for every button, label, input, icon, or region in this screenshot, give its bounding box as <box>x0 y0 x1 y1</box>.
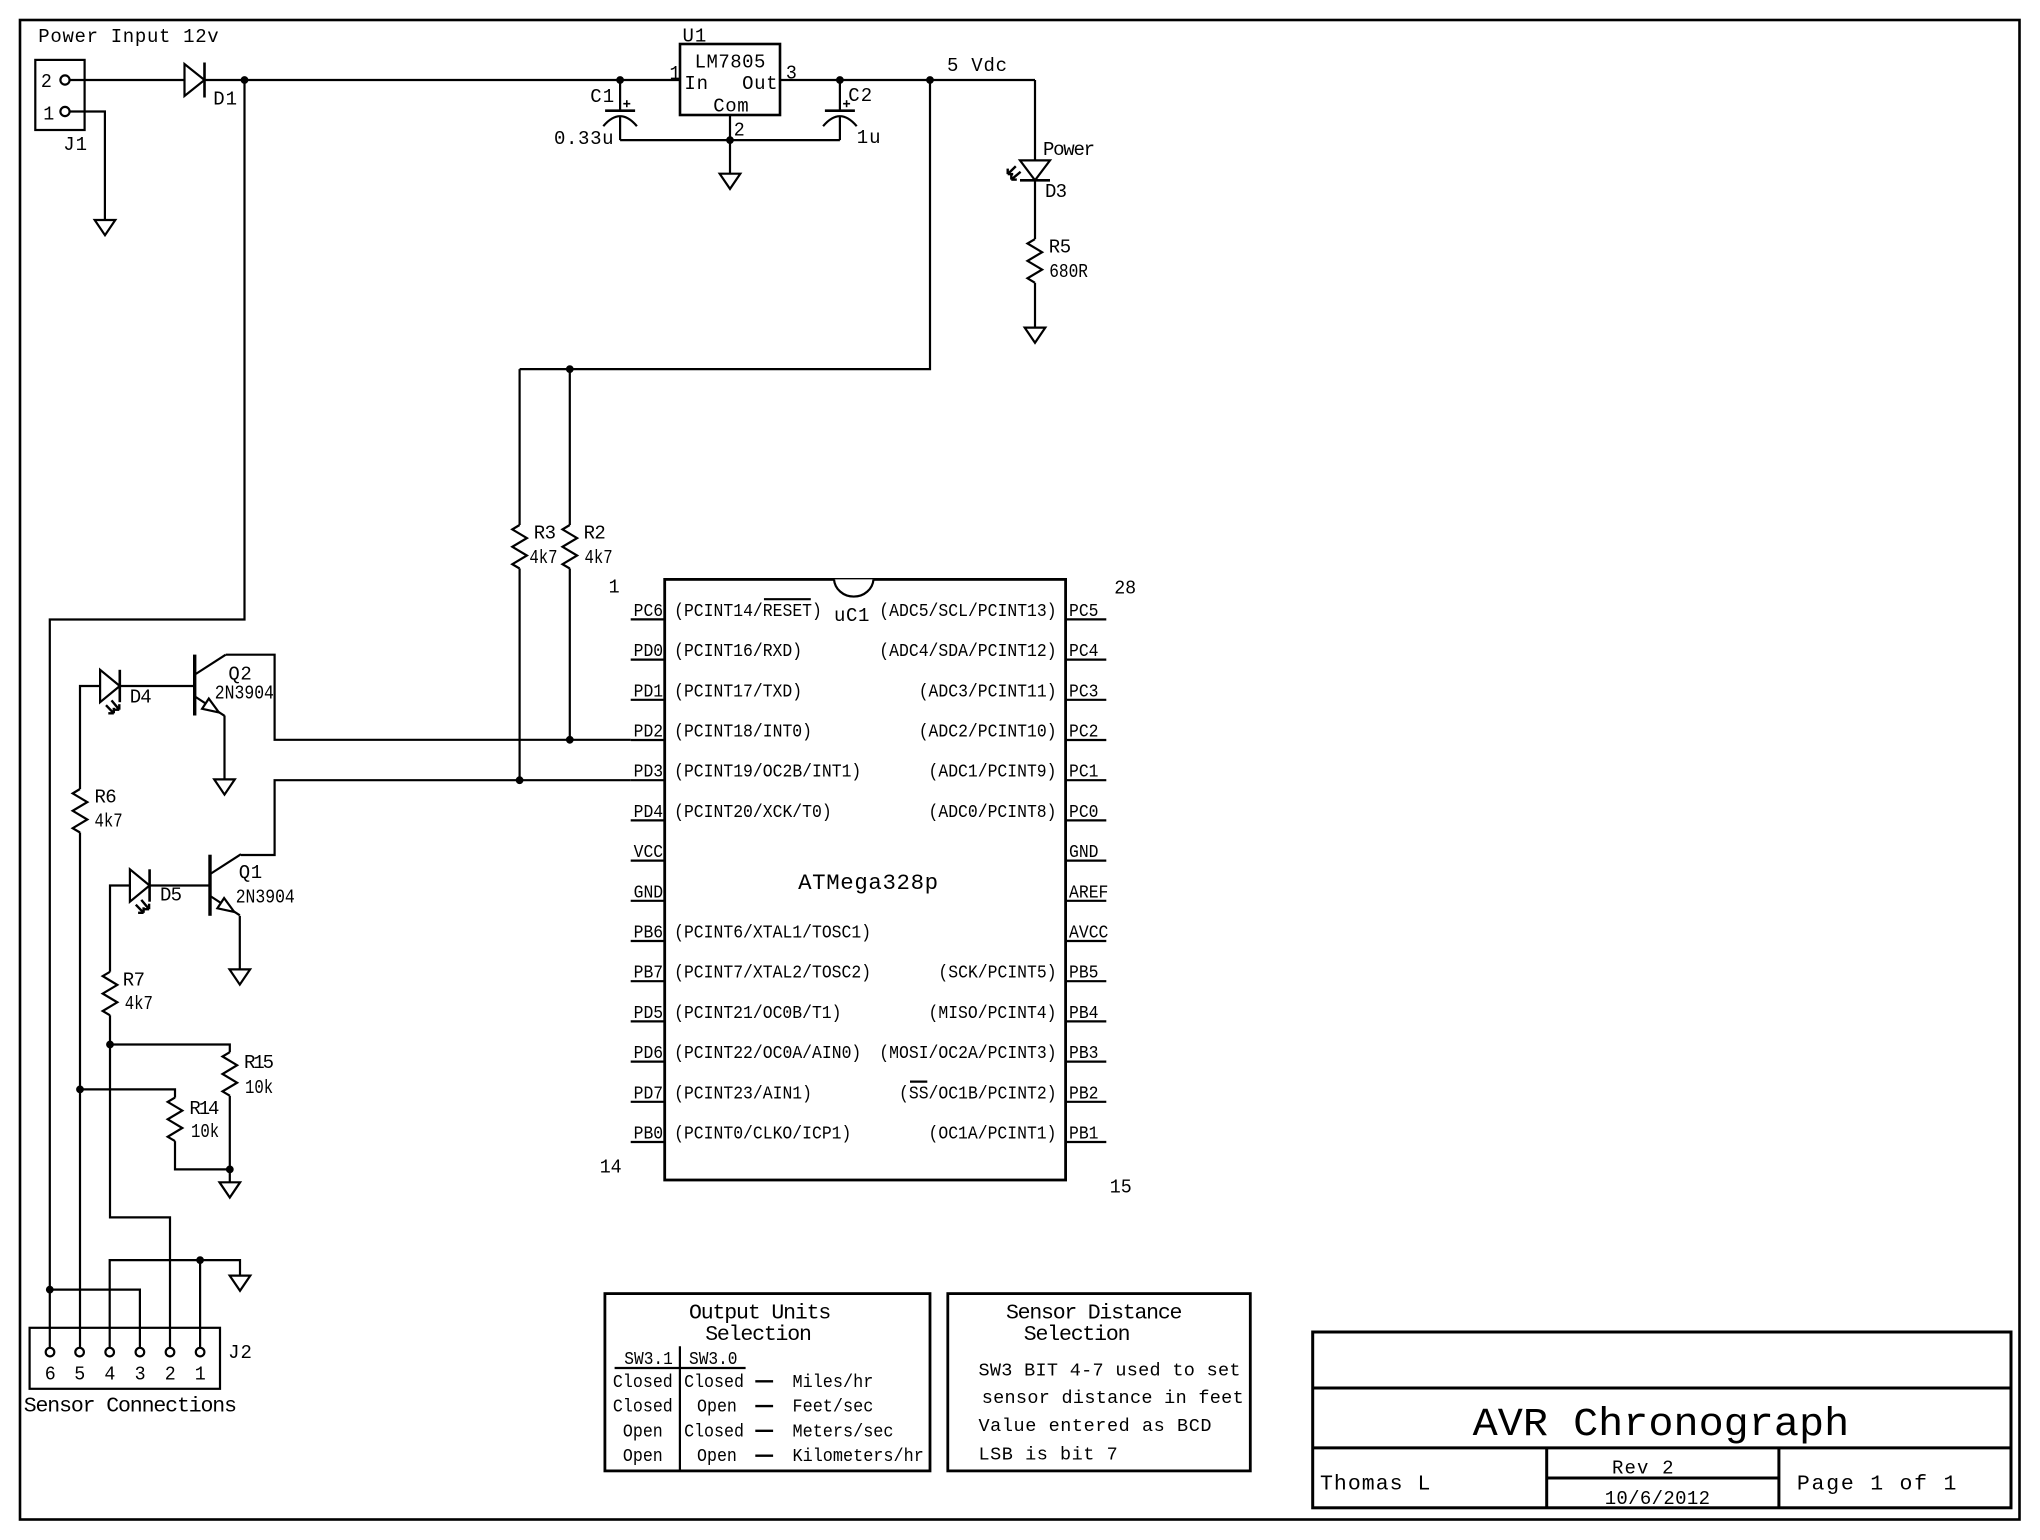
svg-text:PB3: PB3 <box>1069 1043 1099 1064</box>
junction R3-PD3 <box>516 777 523 784</box>
svg-text:uC1: uC1 <box>834 605 869 627</box>
resistor R5 <box>1028 239 1043 283</box>
svg-text:SW3.1: SW3.1 <box>624 1349 673 1370</box>
wire 5V down to R2 R3 feed <box>520 80 930 369</box>
svg-text:Closed: Closed <box>613 1372 673 1393</box>
svg-text:5: 5 <box>74 1363 85 1385</box>
connector J1 <box>35 60 84 130</box>
wire Q2 collector to PD2 <box>226 655 631 740</box>
pin PD3 stub <box>631 779 665 781</box>
LED D3 <box>1020 160 1050 180</box>
junction 5V node <box>927 77 934 84</box>
svg-text:(ADC1/PCINT9): (ADC1/PCINT9) <box>929 762 1057 783</box>
wire junction to J2 pin3 <box>50 1290 140 1348</box>
svg-text:Open: Open <box>623 1421 663 1442</box>
svg-text:PB0: PB0 <box>634 1124 664 1145</box>
svg-text:3: 3 <box>135 1363 146 1385</box>
ground below Q2 <box>214 779 235 794</box>
svg-text:PD5: PD5 <box>634 1003 664 1024</box>
wire D1 to C1 to U1 (12V rail) <box>205 79 680 81</box>
svg-text:PB2: PB2 <box>1069 1083 1099 1104</box>
svg-text:(PCINT7/XTAL2/TOSC2): (PCINT7/XTAL2/TOSC2) <box>674 963 871 984</box>
svg-text:PC3: PC3 <box>1069 681 1099 702</box>
transistor Q1 <box>208 855 211 916</box>
svg-text:PD4: PD4 <box>634 802 664 823</box>
svg-text:AVR Chronograph: AVR Chronograph <box>1473 1402 1850 1448</box>
pin PD1 stub <box>631 699 665 701</box>
junction R2-PD2 <box>566 736 573 743</box>
diode D1 <box>185 64 205 96</box>
svg-text:Selection: Selection <box>705 1323 812 1347</box>
svg-text:AVCC: AVCC <box>1069 923 1108 944</box>
svg-text:R3: R3 <box>534 523 556 545</box>
wire U1 out to C2 to 5V node <box>780 79 1035 81</box>
svg-text:D4: D4 <box>130 687 152 709</box>
ground below J1 <box>95 220 116 235</box>
svg-text:PD1: PD1 <box>634 681 664 702</box>
svg-text:VCC: VCC <box>634 842 664 863</box>
ground below R15 <box>220 1182 241 1197</box>
svg-text:Open: Open <box>697 1397 737 1418</box>
junction U1 ground <box>727 137 734 144</box>
junction at C1 tap <box>617 77 624 84</box>
wire R7 down to J2 pin2 route <box>110 1015 170 1348</box>
svg-text:2: 2 <box>165 1363 176 1385</box>
svg-text:Thomas L: Thomas L <box>1320 1473 1430 1497</box>
svg-text:PB6: PB6 <box>634 923 664 944</box>
table Output Units Selection box <box>605 1294 930 1471</box>
wire J1 pin1 to ground <box>70 112 105 221</box>
svg-text:Page 1 of 1: Page 1 of 1 <box>1797 1473 1957 1497</box>
pin PD6 stub <box>631 1060 665 1062</box>
wire D3 to R5 <box>1034 180 1036 239</box>
LED D5 <box>130 869 150 901</box>
svg-text:Feet/sec: Feet/sec <box>793 1397 874 1418</box>
svg-text:(MOSI/OC2A/PCINT3): (MOSI/OC2A/PCINT3) <box>879 1043 1056 1064</box>
svg-text:10k: 10k <box>245 1077 273 1099</box>
svg-text:PC5: PC5 <box>1069 601 1099 622</box>
svg-text:(PCINT0/CLKO/ICP1): (PCINT0/CLKO/ICP1) <box>674 1124 851 1145</box>
svg-text:(PCINT20/XCK/T0): (PCINT20/XCK/T0) <box>674 802 832 823</box>
svg-text:PD7: PD7 <box>634 1083 664 1104</box>
junction sensor 12V to J2 pin3 <box>46 1286 53 1293</box>
svg-text:5 Vdc: 5 Vdc <box>947 55 1007 77</box>
svg-text:(ADC5/SCL/PCINT13): (ADC5/SCL/PCINT13) <box>879 601 1056 622</box>
wire D5 anode to R7 chain <box>110 886 130 972</box>
wire D4 anode to R6 chain <box>80 686 100 789</box>
wire R2 to PD2 net <box>569 569 571 740</box>
svg-text:R7: R7 <box>123 970 145 992</box>
wire to R2 <box>569 369 571 525</box>
regulator U1 LM7805 box <box>680 44 780 115</box>
svg-text:(PCINT6/XTAL1/TOSC1): (PCINT6/XTAL1/TOSC1) <box>674 923 871 944</box>
svg-text:14: 14 <box>600 1157 622 1179</box>
svg-text:2: 2 <box>734 120 745 142</box>
svg-text:In: In <box>684 73 708 95</box>
pin PC0 stub <box>1066 819 1107 821</box>
svg-text:(PCINT18/INT0): (PCINT18/INT0) <box>674 722 812 743</box>
pin PB6 stub <box>631 940 665 942</box>
wire R5 to ground <box>1034 283 1036 328</box>
svg-text:Miles/hr: Miles/hr <box>793 1372 874 1393</box>
pin PD0 stub <box>631 658 665 660</box>
wire J2 pin4 to ground net <box>110 1260 240 1348</box>
junction R6 line to R14 <box>77 1086 84 1093</box>
pin PD2 stub <box>631 739 665 741</box>
svg-text:(ADC4/SDA/PCINT12): (ADC4/SDA/PCINT12) <box>879 641 1056 662</box>
wire J1 pin2 to D1 <box>70 79 185 81</box>
svg-text:15: 15 <box>1110 1177 1132 1199</box>
svg-text:PD2: PD2 <box>634 722 664 743</box>
svg-text:(SS/OC1B/PCINT2): (SS/OC1B/PCINT2) <box>899 1083 1057 1104</box>
svg-text:1: 1 <box>670 63 681 85</box>
wire U1 pin2 to ground <box>729 115 731 140</box>
svg-text:(MISO/PCINT4): (MISO/PCINT4) <box>929 1003 1057 1024</box>
svg-text:PC0: PC0 <box>1069 802 1099 823</box>
svg-text:(PCINT14/RESET): (PCINT14/RESET) <box>674 601 822 622</box>
table divider vertical <box>679 1346 681 1471</box>
junction R2 feed <box>566 366 573 373</box>
junction at D1 output <box>241 77 248 84</box>
pin GND stub <box>1066 859 1107 861</box>
resistor R3 <box>512 525 527 569</box>
wire 5V to LED D3 <box>1034 80 1036 160</box>
pin AREF stub <box>1066 900 1107 902</box>
svg-text:R5: R5 <box>1049 237 1071 259</box>
ground below Q1 <box>230 969 251 984</box>
ground below R5 <box>1025 328 1046 343</box>
svg-text:J2: J2 <box>228 1342 252 1364</box>
svg-text:C1: C1 <box>590 86 614 108</box>
svg-text:PD0: PD0 <box>634 641 664 662</box>
pin PB5 stub <box>1066 980 1107 982</box>
wire J2 pin1 up <box>199 1260 201 1348</box>
title block line 1 <box>1313 1387 2011 1390</box>
svg-text:680R: 680R <box>1049 261 1088 283</box>
svg-text:Power Input 12v: Power Input 12v <box>38 26 218 48</box>
svg-text:D5: D5 <box>160 884 182 906</box>
svg-text:LM7805: LM7805 <box>695 52 766 74</box>
svg-text:Value entered as BCD: Value entered as BCD <box>979 1416 1212 1437</box>
resistor R6 <box>73 789 88 833</box>
junction R7 line to R15 <box>107 1041 114 1048</box>
svg-text:PD6: PD6 <box>634 1043 664 1064</box>
svg-text:SW3 BIT 4-7 used to set: SW3 BIT 4-7 used to set <box>979 1361 1241 1382</box>
transistor Q2 <box>193 655 196 716</box>
svg-text:U1: U1 <box>683 25 707 47</box>
svg-text:AREF: AREF <box>1069 882 1108 903</box>
title block line 2 <box>1313 1446 2011 1449</box>
svg-text:Selection: Selection <box>1024 1323 1131 1347</box>
svg-text:1: 1 <box>43 104 54 126</box>
pin PB4 stub <box>1066 1020 1107 1022</box>
IC notch <box>834 579 874 596</box>
svg-text:3: 3 <box>786 63 797 85</box>
pin PC4 stub <box>1066 658 1107 660</box>
svg-text:LSB is bit 7: LSB is bit 7 <box>979 1445 1118 1466</box>
ground below U1 <box>720 174 741 189</box>
resistor R2 <box>563 525 578 569</box>
svg-text:(OC1A/PCINT1): (OC1A/PCINT1) <box>929 1124 1057 1145</box>
wire Q1 collector to PD3 <box>241 780 631 855</box>
svg-text:(PCINT17/TXD): (PCINT17/TXD) <box>674 681 802 702</box>
svg-text:sensor distance in feet: sensor distance in feet <box>982 1388 1244 1409</box>
svg-text:(ADC2/PCINT10): (ADC2/PCINT10) <box>919 722 1057 743</box>
pin PB1 stub <box>1066 1141 1107 1143</box>
table Sensor Distance Selection box <box>948 1294 1251 1471</box>
svg-text:4k7: 4k7 <box>95 811 123 833</box>
svg-text:GND: GND <box>634 882 664 903</box>
svg-text:Open: Open <box>697 1446 737 1467</box>
svg-text:PC1: PC1 <box>1069 762 1099 783</box>
wire junction to R14 <box>80 1089 175 1097</box>
svg-text:PD3: PD3 <box>634 762 664 783</box>
svg-text:GND: GND <box>1069 842 1099 863</box>
resistor R14 <box>168 1098 183 1142</box>
overline RESET <box>764 598 811 600</box>
svg-text:D1: D1 <box>213 88 237 110</box>
svg-text:4: 4 <box>104 1363 115 1385</box>
title block outer <box>1313 1332 2011 1508</box>
svg-text:Closed: Closed <box>684 1372 744 1393</box>
wire D4 cathode to Q2 base <box>120 685 195 687</box>
svg-text:4k7: 4k7 <box>125 993 153 1015</box>
svg-text:(PCINT23/AIN1): (PCINT23/AIN1) <box>674 1083 812 1104</box>
junction J2 pin1 ground net <box>197 1257 204 1264</box>
capacitor C1 <box>619 80 621 111</box>
svg-text:(PCINT16/RXD): (PCINT16/RXD) <box>674 641 802 662</box>
pin PC1 stub <box>1066 779 1107 781</box>
svg-text:Rev 2: Rev 2 <box>1612 1457 1674 1479</box>
svg-text:C2: C2 <box>848 85 872 107</box>
svg-text:PB5: PB5 <box>1069 963 1099 984</box>
title block divider right <box>1777 1448 1780 1508</box>
pin VCC stub <box>631 859 665 861</box>
svg-text:Closed: Closed <box>684 1421 744 1442</box>
svg-text:2N3904: 2N3904 <box>236 887 295 909</box>
svg-text:SW3.0: SW3.0 <box>689 1349 738 1370</box>
svg-text:28: 28 <box>1114 578 1136 600</box>
resistor R7 <box>103 972 118 1016</box>
pin PB7 stub <box>631 980 665 982</box>
wire R14 to ground junction <box>175 1141 230 1169</box>
svg-text:10/6/2012: 10/6/2012 <box>1605 1488 1710 1510</box>
wire to R3 <box>518 369 520 525</box>
svg-text:Com: Com <box>713 95 748 117</box>
svg-text:Q1: Q1 <box>239 862 262 884</box>
svg-text:(PCINT21/OC0B/T1): (PCINT21/OC0B/T1) <box>674 1003 841 1024</box>
svg-text:4k7: 4k7 <box>529 547 557 569</box>
pin PC6 stub <box>631 618 665 620</box>
capacitor C2 <box>839 80 841 111</box>
wire junction to R15 <box>110 1045 230 1053</box>
svg-text:Meters/sec: Meters/sec <box>793 1421 894 1442</box>
svg-text:R6: R6 <box>95 787 117 809</box>
pin PB3 stub <box>1066 1060 1107 1062</box>
svg-text:1u: 1u <box>857 127 881 149</box>
wire R3 to PD3 net <box>518 569 520 781</box>
svg-text:PB1: PB1 <box>1069 1124 1099 1145</box>
svg-text:10k: 10k <box>191 1121 219 1143</box>
svg-text:PC2: PC2 <box>1069 722 1099 743</box>
svg-text:4k7: 4k7 <box>585 547 613 569</box>
pin GND stub <box>631 900 665 902</box>
pin PD7 stub <box>631 1101 665 1103</box>
svg-text:2N3904: 2N3904 <box>215 683 274 705</box>
svg-text:Kilometers/hr: Kilometers/hr <box>793 1446 924 1467</box>
svg-text:1: 1 <box>609 577 620 599</box>
table header underline <box>615 1367 746 1369</box>
svg-text:Closed: Closed <box>613 1397 673 1418</box>
ground wire under C1 C2 U1 <box>620 139 840 141</box>
junction R14 R15 ground <box>226 1166 233 1173</box>
svg-text:R14: R14 <box>189 1098 219 1120</box>
svg-text:6: 6 <box>45 1363 56 1385</box>
wire Q1 emitter to ground <box>239 916 241 970</box>
wire R6 to J2 pin5 <box>79 833 81 1348</box>
svg-text:PB7: PB7 <box>634 963 664 984</box>
svg-text:2: 2 <box>41 71 52 93</box>
svg-text:PC4: PC4 <box>1069 641 1099 662</box>
svg-text:PB4: PB4 <box>1069 1003 1099 1024</box>
pin PB0 stub <box>631 1141 665 1143</box>
svg-text:Open: Open <box>623 1446 663 1467</box>
svg-text:1: 1 <box>195 1363 206 1385</box>
pin PB2 stub <box>1066 1101 1107 1103</box>
title block mid divider <box>1547 1477 1779 1480</box>
svg-text:(ADC0/PCINT8): (ADC0/PCINT8) <box>929 802 1057 823</box>
svg-text:ATMega328p: ATMega328p <box>798 870 938 896</box>
overline SS <box>910 1080 927 1082</box>
svg-text:Power: Power <box>1043 139 1095 161</box>
wire D5 cathode to Q1 base <box>150 884 210 886</box>
pin PD5 stub <box>631 1020 665 1022</box>
svg-text:0.33u: 0.33u <box>554 128 614 150</box>
pin PD4 stub <box>631 819 665 821</box>
svg-text:(ADC3/PCINT11): (ADC3/PCINT11) <box>919 681 1057 702</box>
resistor R15 <box>223 1052 238 1096</box>
pin PC3 stub <box>1066 699 1107 701</box>
junction at C2 tap <box>837 77 844 84</box>
LED D4 <box>100 670 120 702</box>
pin AVCC stub <box>1066 940 1107 942</box>
svg-text:R2: R2 <box>584 523 606 545</box>
svg-text:J1: J1 <box>63 134 87 156</box>
svg-text:(PCINT22/OC0A/AIN0): (PCINT22/OC0A/AIN0) <box>674 1043 861 1064</box>
svg-text:D3: D3 <box>1045 181 1067 203</box>
pin PC5 stub <box>1066 618 1107 620</box>
svg-text:(PCINT19/OC2B/INT1): (PCINT19/OC2B/INT1) <box>674 762 861 783</box>
svg-text:PC6: PC6 <box>634 601 664 622</box>
connector J2 <box>30 1328 220 1389</box>
svg-text:(SCK/PCINT5): (SCK/PCINT5) <box>938 963 1056 984</box>
svg-text:Out: Out <box>742 73 777 95</box>
wire Q2 emitter to ground <box>223 716 225 780</box>
title block divider left <box>1545 1448 1548 1508</box>
IC uC1 ATMega328p box <box>665 579 1066 1180</box>
ground near J2 <box>230 1276 251 1291</box>
pin PC2 stub <box>1066 739 1107 741</box>
svg-text:R15: R15 <box>244 1052 274 1074</box>
svg-text:Sensor Connections: Sensor Connections <box>24 1395 237 1419</box>
wire R15 to ground junction <box>229 1096 231 1183</box>
wire 12V rail down to sensor feed <box>50 80 245 1348</box>
